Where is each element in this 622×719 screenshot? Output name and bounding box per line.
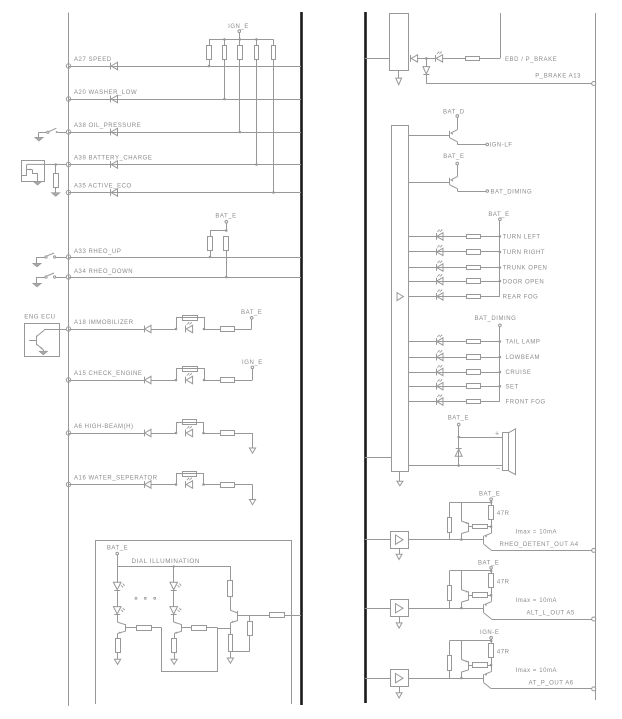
- wire parallel loop A15: [177, 369, 205, 381]
- wire A33 signal line: [69, 257, 302, 259]
- resistor base (dial 2): [192, 626, 207, 631]
- LED (TURN LEFT): [436, 233, 438, 240]
- resistor (EBD): [466, 57, 480, 61]
- wire left connector bus: [68, 13, 70, 707]
- wire sensor output: [27, 163, 66, 165]
- junction dot buzzer -: [457, 464, 460, 467]
- junction dot top bus: [223, 38, 226, 41]
- LED (REAR FOG): [436, 293, 438, 300]
- left panel border (thick): [300, 12, 303, 705]
- resistor 47R (AT_P_OUT A6): [489, 644, 494, 658]
- wire resistor to Q collector: [230, 596, 232, 610]
- supply terminal BAT_E (buzzer): [457, 423, 460, 426]
- svg-text:BAT_E: BAT_E: [215, 213, 236, 219]
- wire resistor-bank top bus: [209, 39, 274, 41]
- wire Q2 output: [457, 144, 486, 146]
- svg-text:LOWBEAM: LOWBEAM: [506, 355, 541, 361]
- svg-text:SET: SET: [506, 384, 519, 390]
- LED (DOOR OPEN): [436, 278, 438, 285]
- wire base to rail (dial 2): [206, 627, 218, 629]
- supply terminal BAT_E (dial): [116, 552, 119, 555]
- wire emitter node (dial driver): [218, 628, 231, 630]
- resistor base feed (RHEO_DETENT_OUT A4): [449, 502, 451, 517]
- wire output line (RHEO_DETENT_OUT A4): [491, 550, 591, 552]
- diode D (EBD): [410, 55, 412, 62]
- LED dial lower (x=173.7): [170, 607, 178, 614]
- supply terminal IGN_E (A15): [251, 366, 254, 369]
- junction dot buzzer +: [457, 436, 460, 439]
- wire border to driver box: [365, 457, 392, 459]
- resistor series (A15): [221, 378, 235, 383]
- supply terminal BAT_E (T2): [456, 162, 459, 165]
- wire base resistor (dial 1): [125, 627, 136, 629]
- svg-text:ALT_L_OUT A5: ALT_L_OUT A5: [527, 610, 576, 616]
- svg-text:RHEO_DETENT_OUT A4: RHEO_DETENT_OUT A4: [500, 542, 579, 548]
- speaker (buzzer): [503, 433, 509, 471]
- wire to output arrow A16: [235, 484, 253, 486]
- svg-text:A15 CHECK_ENGINE: A15 CHECK_ENGINE: [74, 371, 143, 377]
- wire emitter resistor to ground: [117, 653, 119, 659]
- junction dot (TRUNK OPEN): [499, 266, 502, 269]
- switch S1 (oil pressure): [56, 131, 58, 133]
- transistor Q (dial x=173.7): [174, 622, 182, 625]
- wire output line (AT_P_OUT A6): [491, 688, 591, 690]
- wire border to brake box: [365, 58, 389, 60]
- svg-text:TURN RIGHT: TURN RIGHT: [503, 250, 545, 256]
- svg-text:DIAL ILLUMINATION: DIAL ILLUMINATION: [132, 558, 200, 565]
- wire A35 signal line: [69, 192, 302, 194]
- wire Q3 base: [408, 182, 450, 184]
- resistor pull-up R3 (IGN_E bank): [239, 39, 241, 45]
- svg-text:FRONT FOG: FRONT FOG: [506, 400, 546, 406]
- junction dot supply (AT_P_OUT A6): [490, 640, 493, 643]
- wire LED to transistor: [173, 615, 175, 622]
- resistor R8 (rheo down pull-up): [224, 237, 229, 251]
- svg-text:IGN_E: IGN_E: [228, 24, 249, 30]
- wire EBD riser: [500, 13, 502, 58]
- junction dot base node (AT_P_OUT A6): [460, 677, 463, 680]
- terminal circle (ALT_L_OUT A5): [592, 617, 596, 621]
- wire buzzer supply drop: [458, 426, 460, 466]
- svg-text:Imax = 10mA: Imax = 10mA: [516, 530, 558, 536]
- resistor pull-up R1 (IGN_E bank): [209, 39, 211, 45]
- pin circle A39: [66, 162, 70, 166]
- svg-text:A38 OIL_PRESSURE: A38 OIL_PRESSURE: [74, 123, 141, 129]
- junction dot A16 right: [202, 483, 205, 486]
- ground (Q1 emitter): [39, 351, 47, 355]
- wire LED to resistor A6: [204, 433, 221, 435]
- wire emitter resistor to ground: [174, 653, 176, 659]
- resistor (parallel w/ LED A15): [183, 367, 198, 372]
- wire base to rail (dial 1): [151, 627, 162, 629]
- resistor dimming input: [270, 613, 285, 618]
- wire A6 to LED: [151, 433, 176, 435]
- resistor pull-up R5 (IGN_E bank): [273, 39, 275, 45]
- junction dot supply (RHEO_DETENT_OUT A4): [490, 501, 493, 504]
- resistor (CRUISE): [467, 370, 481, 375]
- pin circle A38: [66, 130, 70, 134]
- wire row TURN LEFT: [408, 236, 466, 238]
- junction dot dial branch2 top: [173, 565, 175, 567]
- transistor Q (dial x=117.2): [117, 622, 125, 625]
- wire LED to resistor (EBD): [443, 58, 465, 60]
- supply terminal BAT_E (ALT_L_OUT A5): [490, 567, 493, 570]
- ground (buffer RHEO_DETENT_OUT A4): [396, 554, 402, 559]
- LED (A15): [185, 377, 187, 384]
- junction dot (TURN LEFT): [499, 235, 502, 238]
- resistor base-divider (dial driver): [248, 622, 253, 636]
- wire IGN_E stem: [239, 33, 241, 40]
- diode D (A20): [110, 96, 112, 103]
- LED (A18): [185, 326, 187, 333]
- junction dot base node (RHEO_DETENT_OUT A4): [460, 538, 463, 541]
- diode D (A35): [110, 189, 112, 196]
- component box (brake input): [390, 14, 409, 71]
- wire A15 signal line: [69, 380, 145, 382]
- wire output line (ALT_L_OUT A5): [491, 619, 591, 621]
- supply terminal IGN_E: [238, 30, 241, 33]
- resistor sense (AT_P_OUT A6): [469, 665, 473, 667]
- wire buffer output (RHEO_DETENT_OUT A4): [408, 539, 484, 541]
- svg-text:BAT_E: BAT_E: [241, 310, 262, 316]
- wire dial top bus: [117, 555, 119, 566]
- pin circle A35: [66, 190, 70, 194]
- junction dot A6 right: [202, 432, 205, 435]
- wire base tap riser: [249, 615, 251, 621]
- junction dot R7: [209, 256, 212, 259]
- ground (buffer AT_P_OUT A6): [396, 693, 402, 698]
- junction dot sensor/resistor: [54, 163, 57, 166]
- junction dot A6 left: [175, 432, 178, 435]
- wire parallel loop A16: [177, 474, 204, 485]
- junction dot supply (ALT_L_OUT A5): [490, 570, 493, 573]
- buffer U (ALT_L_OUT A5): [391, 600, 409, 617]
- transistor Q (dial driver): [230, 610, 237, 613]
- terminal circle IGN-LF: [486, 143, 489, 146]
- diode D (A16): [144, 481, 146, 488]
- svg-text:REAR FOG: REAR FOG: [503, 295, 539, 301]
- svg-text:IGN_E: IGN_E: [242, 360, 263, 366]
- wire resistor to riser (EBD): [480, 58, 500, 60]
- junction dot A15 left: [175, 379, 178, 382]
- wire buffer ground stem (RHEO_DETENT_OUT A4): [399, 548, 401, 554]
- junction dot (TURN RIGHT): [499, 251, 502, 254]
- wire buzzer - line: [408, 465, 502, 467]
- LED (LOWBEAM): [436, 354, 438, 361]
- svg-text:A20 WASHER_LOW: A20 WASHER_LOW: [74, 90, 137, 96]
- resistor series (A6): [221, 431, 235, 436]
- junction dot R5 bottom: [272, 191, 275, 194]
- wire base rail (U shape): [162, 628, 218, 672]
- ground (R6): [52, 193, 60, 197]
- sensor internal symbol: [26, 164, 28, 175]
- junction dot 47R bottom (ALT_L_OUT A5): [490, 594, 493, 597]
- wire row TURN RIGHT: [408, 251, 466, 253]
- junction dot A18 left: [175, 328, 178, 331]
- supply terminal BAT_D: [456, 115, 459, 118]
- junction dot 47R bottom (AT_P_OUT A6): [490, 664, 493, 667]
- pin circle A27: [66, 64, 70, 68]
- svg-text:BAT_D: BAT_D: [443, 110, 465, 116]
- svg-text:BAT_E: BAT_E: [107, 546, 128, 552]
- wire A18 signal line: [69, 329, 145, 331]
- wire base line (dial driver): [238, 615, 270, 617]
- junction dot top bus: [255, 38, 258, 41]
- junction dot A15 right: [203, 379, 206, 382]
- resistor series (A16): [221, 483, 235, 488]
- LED (TAIL LAMP): [436, 338, 438, 345]
- ground (brake box): [396, 78, 402, 85]
- resistor (TURN RIGHT): [467, 250, 481, 255]
- buffer symbol (driver, rear fog): [397, 293, 403, 301]
- component box DIAL ILLUMINATION (open bottom): [96, 541, 292, 705]
- svg-text:BAT_DIMING: BAT_DIMING: [491, 189, 533, 195]
- svg-text:CRUISE: CRUISE: [506, 370, 532, 376]
- wire to supply riser A18: [235, 329, 252, 331]
- svg-text:47R: 47R: [497, 511, 510, 517]
- junction dot EBD node: [425, 57, 428, 60]
- diode D (A6): [144, 430, 146, 437]
- supply terminal BAT_E (A18): [250, 317, 253, 320]
- wire brake box ground stem: [398, 71, 400, 78]
- svg-text:IGN-E: IGN-E: [480, 630, 499, 636]
- junction dot R3 bottom: [239, 131, 242, 134]
- resistor (SET): [467, 384, 481, 389]
- junction dot (LOWBEAM): [499, 356, 502, 359]
- wire BAT_E stem: [226, 223, 228, 230]
- resistor R6 (battery charge): [55, 165, 57, 174]
- wire row TAIL LAMP: [408, 341, 466, 343]
- resistor (TRUNK OPEN): [467, 266, 481, 270]
- wire buffer output (ALT_L_OUT A5): [408, 608, 484, 610]
- wire buzzer + line: [459, 437, 503, 439]
- junction dot (DOOR OPEN): [499, 280, 502, 283]
- resistor series (A18): [221, 327, 235, 332]
- LED dial upper (x=173.7): [170, 582, 178, 589]
- output arrow (A6): [249, 448, 255, 453]
- wire row LOWBEAM: [408, 357, 466, 359]
- wire top bus (AT_P_OUT A6): [449, 640, 491, 642]
- junction dot R1 bottom: [208, 65, 211, 68]
- wire divider bottom: [249, 635, 251, 651]
- ground (S3 (rheo down)): [33, 283, 41, 287]
- ground (dial branch x=173.7): [171, 659, 177, 664]
- junction dot A18 right: [203, 328, 206, 331]
- pin circle A34: [66, 275, 70, 279]
- terminal circle (AT_P_OUT A6): [592, 687, 596, 691]
- wire group-1 supply bus: [499, 221, 501, 297]
- transistor Q limit (ALT_L_OUT A5): [461, 571, 463, 590]
- component box (lamp driver IC): [392, 126, 409, 472]
- svg-text:ENG ECU: ENG ECU: [24, 315, 55, 321]
- svg-text:A35 ACTIVE_ECO: A35 ACTIVE_ECO: [74, 184, 132, 190]
- resistor (parallel w/ LED A18): [183, 316, 198, 321]
- diode D (A38): [110, 129, 112, 136]
- supply terminal BAT_E (rheostat): [225, 221, 228, 224]
- LED (TURN RIGHT): [436, 249, 438, 256]
- wire top bus (RHEO_DETENT_OUT A4): [449, 502, 491, 504]
- resistor (TURN LEFT): [467, 235, 481, 239]
- wire row TRUNK OPEN: [408, 267, 466, 269]
- wire dial branch drop: [117, 566, 119, 582]
- wire buffer ground stem (AT_P_OUT A6): [399, 687, 401, 693]
- junction dot A16 left: [175, 483, 178, 486]
- wire right connector edge: [595, 13, 597, 700]
- resistor pull-up R4 (IGN_E bank): [256, 39, 258, 45]
- ground (driver IC): [397, 481, 403, 485]
- svg-text:BAT_E: BAT_E: [478, 560, 499, 566]
- ground (buffer ALT_L_OUT A5): [396, 623, 402, 628]
- terminal circle P_BRAKE A13: [592, 82, 596, 86]
- svg-text:IGN-LF: IGN-LF: [490, 143, 513, 149]
- resistor (parallel w/ LED A16): [183, 472, 197, 477]
- wire A34 signal line: [69, 277, 302, 279]
- switch S2 (rheo up): [54, 256, 56, 258]
- wire P_BRAKE A13 line: [426, 83, 591, 85]
- svg-text:BAT_DIMING: BAT_DIMING: [475, 316, 517, 322]
- LED (TRUNK OPEN): [436, 264, 438, 271]
- wire diode to LED: [418, 58, 436, 60]
- resistor collector (dial driver): [228, 581, 233, 597]
- wire dial driver drop: [230, 566, 232, 580]
- wire row DOOR OPEN: [408, 281, 466, 283]
- resistor base (dial 1): [137, 626, 152, 631]
- resistor base feed (ALT_L_OUT A5): [449, 571, 451, 586]
- resistor R7 (rheo up pull-up): [210, 231, 212, 237]
- pin circle A20: [66, 97, 70, 101]
- LED (FRONT FOG): [436, 398, 438, 405]
- svg-text:TAIL LAMP: TAIL LAMP: [506, 340, 541, 346]
- wire group-2 supply bus: [499, 327, 501, 402]
- wire driver ground stem: [399, 471, 401, 481]
- svg-text:TRUNK OPEN: TRUNK OPEN: [503, 266, 548, 272]
- wire A16 to LED: [151, 484, 176, 486]
- junction dot (SET): [499, 385, 502, 388]
- wire row CRUISE: [408, 372, 466, 374]
- diode D (A18): [144, 326, 146, 333]
- wire to supply riser A15: [235, 380, 253, 382]
- resistor (FRONT FOG): [467, 400, 481, 404]
- diode D (A39): [110, 161, 112, 168]
- ellipsis dots (repeated branches): [135, 597, 137, 599]
- terminal circle BAT_DIMING: [486, 190, 489, 193]
- supply terminal BAT_DIMING (group 2): [499, 324, 502, 327]
- svg-text:Imax = 10mA: Imax = 10mA: [516, 598, 558, 604]
- svg-text:47R: 47R: [497, 650, 510, 656]
- svg-text:47R: 47R: [497, 580, 510, 586]
- junction dot BAT_E bus: [225, 229, 228, 232]
- svg-text:Imax = 10mA: Imax = 10mA: [516, 668, 558, 674]
- junction dot R8: [225, 276, 228, 279]
- svg-text:A6 HIGH-BEAM(H): A6 HIGH-BEAM(H): [74, 424, 134, 430]
- junction dot (TAIL LAMP): [499, 340, 502, 343]
- diode D (P_BRAKE, vertical): [426, 58, 428, 66]
- junction dot base node (ALT_L_OUT A5): [460, 607, 463, 610]
- wire base resistor (dial 2): [182, 627, 192, 629]
- supply terminal BAT_E (RHEO_DETENT_OUT A4): [490, 498, 493, 501]
- resistor (TAIL LAMP): [467, 340, 481, 344]
- component box ENG ECU: [25, 324, 60, 357]
- wire LED to resistor A15: [204, 380, 220, 382]
- svg-text:P_BRAKE A13: P_BRAKE A13: [535, 73, 581, 79]
- LED (A6): [185, 430, 187, 437]
- svg-text:BAT_E: BAT_E: [488, 212, 509, 218]
- wire dimming input to border: [285, 615, 301, 617]
- transistor Q limit (AT_P_OUT A6): [461, 641, 463, 660]
- ground (dial branch x=117.2): [115, 659, 121, 664]
- resistor (parallel w/ LED A6): [183, 420, 197, 425]
- svg-text:DOOR OPEN: DOOR OPEN: [503, 279, 545, 285]
- svg-text:A39 BATTERY_CHARGE: A39 BATTERY_CHARGE: [74, 156, 152, 162]
- resistor (DOOR OPEN): [467, 279, 481, 284]
- LED (A16): [185, 481, 187, 488]
- supply terminal BAT_E (group 1): [499, 218, 502, 221]
- svg-text:EBD / P_BRAKE: EBD / P_BRAKE: [505, 57, 557, 63]
- wire to ground (dial driver): [230, 652, 232, 658]
- svg-text:A34 RHEO_DOWN: A34 RHEO_DOWN: [74, 269, 133, 275]
- buffer U (AT_P_OUT A6): [391, 670, 409, 687]
- resistor emitter (dial driver): [229, 635, 233, 652]
- wire Q3 output: [457, 191, 486, 193]
- wire A15 to LED: [151, 380, 176, 382]
- wire A20 signal line: [69, 99, 302, 101]
- svg-text:AT_P_OUT A6: AT_P_OUT A6: [529, 680, 574, 686]
- wire input line (ALT_L_OUT A5): [365, 608, 390, 610]
- svg-text:−: −: [496, 466, 500, 473]
- right panel border (thick): [364, 12, 367, 703]
- wire row SET: [408, 386, 466, 388]
- transistor Q1 (ECU open collector): [36, 336, 38, 346]
- buffer U (RHEO_DETENT_OUT A4): [391, 532, 409, 549]
- ground (S2 (rheo up)): [33, 263, 41, 267]
- resistor pull-up R2 (IGN_E bank): [224, 39, 226, 45]
- wire Q1 collector to A18: [44, 329, 66, 331]
- resistor sense (ALT_L_OUT A5): [469, 595, 473, 597]
- wire A38 signal line: [69, 132, 302, 134]
- LED (CRUISE): [436, 369, 438, 376]
- pin circle A6: [66, 431, 70, 435]
- wire LED to resistor A16: [204, 484, 221, 486]
- diode D (A15): [144, 377, 146, 384]
- resistor (REAR FOG): [467, 295, 481, 299]
- wire A16 signal line: [69, 484, 145, 486]
- wire input line (AT_P_OUT A6): [365, 678, 390, 680]
- wire A6 signal line: [69, 433, 145, 435]
- svg-text:TURN LEFT: TURN LEFT: [503, 235, 541, 241]
- wire between LEDs: [173, 590, 175, 606]
- pin circle A15: [66, 378, 70, 382]
- pin circle A33: [66, 255, 70, 259]
- transistor Q output (RHEO_DETENT_OUT A4): [491, 527, 493, 534]
- wire parallel loop A6: [177, 423, 204, 434]
- ground (sensor box): [33, 182, 41, 186]
- svg-text:BAT_E: BAT_E: [443, 154, 464, 160]
- transistor Q output (AT_P_OUT A6): [491, 665, 493, 672]
- LED dial lower (x=117.2): [113, 607, 121, 614]
- wire parallel loop A18: [177, 318, 205, 330]
- junction dot top bus: [239, 38, 242, 41]
- svg-text:+: +: [495, 430, 499, 437]
- wire to output arrow A6: [235, 433, 253, 435]
- wire A18 to LED: [151, 329, 176, 331]
- wire dial branch drop: [173, 566, 175, 582]
- wire A27 signal line: [69, 66, 302, 68]
- svg-text:A16 WATER_SEPERATOR: A16 WATER_SEPERATOR: [74, 476, 158, 482]
- svg-text:BAT_E: BAT_E: [448, 415, 469, 421]
- wire row REAR FOG: [408, 296, 466, 298]
- junction dot R2 bottom: [223, 98, 226, 101]
- wire emitter to resistor: [230, 628, 232, 635]
